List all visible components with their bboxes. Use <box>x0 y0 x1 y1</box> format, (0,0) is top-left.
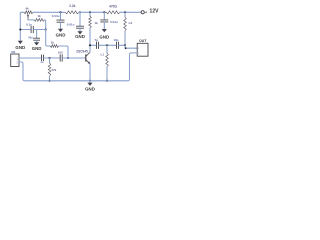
node C <box>89 11 91 13</box>
wire: wiper to R2 <box>28 19 34 21</box>
svg-text:GND: GND <box>32 46 42 51</box>
svg-text:0.01u: 0.01u <box>67 23 75 27</box>
wire: bottom ground rail <box>25 80 128 82</box>
capacitor C4 0.01u <box>79 12 81 25</box>
wire: node row y29.5 <box>20 29 30 31</box>
svg-text:GND: GND <box>75 34 85 39</box>
capacitor C9 10p <box>117 42 119 49</box>
svg-text:2SC945: 2SC945 <box>76 50 88 54</box>
svg-text:L2: L2 <box>129 21 133 25</box>
node F <box>106 44 108 46</box>
ground GND6 (rail) <box>89 81 91 83</box>
resistor R6 2.2k <box>65 11 79 14</box>
capacitor C5 0.04u <box>103 12 105 19</box>
resistor R3 470 <box>106 11 120 14</box>
node D <box>103 11 105 13</box>
wire: C6 to base node <box>44 57 60 59</box>
wire: top rail pot to 2.2k <box>33 11 65 13</box>
resistor R8 47k <box>49 58 51 63</box>
svg-text:6k: 6k <box>26 6 30 10</box>
svg-text:1k: 1k <box>94 21 98 25</box>
resistor R7 1k collector load <box>89 12 91 16</box>
resistor R5 1k base bias <box>50 45 58 48</box>
wire: R2 to bias node <box>45 20 46 30</box>
svg-text:7p: 7p <box>95 38 99 42</box>
svg-text:L1: L1 <box>101 52 105 56</box>
node A <box>59 11 61 13</box>
resistor R1 potentiometer 6k body <box>24 11 33 14</box>
ground GND1 <box>18 41 23 44</box>
wire: bias node down to base resistor row <box>46 30 51 47</box>
svg-text:47k: 47k <box>51 68 56 72</box>
wire: OUT pin2 to ground rail <box>128 53 138 81</box>
transistor Q1 2SC945 <box>85 54 87 61</box>
node: bias filter node <box>45 28 47 30</box>
node G antenna node <box>124 44 126 46</box>
svg-text:M1: M1 <box>11 50 15 54</box>
svg-text:GND: GND <box>85 87 95 92</box>
node B <box>79 11 81 13</box>
power terminal 12V <box>141 11 144 14</box>
svg-text:0.04u: 0.04u <box>52 14 60 18</box>
svg-text:4u: 4u <box>40 60 43 64</box>
capacitor C7 100p series <box>60 54 62 61</box>
svg-text:OUT: OUT <box>139 39 147 43</box>
microphone M1 box <box>11 54 19 67</box>
wire: RF row collector to 7p <box>90 44 96 46</box>
svg-text:100: 100 <box>58 50 63 54</box>
capacitor C2 50u to ground <box>33 38 40 40</box>
inductor L2 <box>124 12 126 17</box>
wire: 50u tap down <box>36 30 38 38</box>
wire: mic pin2 down to rail <box>19 62 25 81</box>
svg-text:50u: 50u <box>28 36 33 40</box>
ground GND5 <box>102 29 107 32</box>
capacitor C6 4u7 coupling <box>42 55 44 61</box>
svg-text:12V: 12V <box>150 9 160 15</box>
resistor R2 1k (wiper series) <box>34 18 45 21</box>
svg-text:10p: 10p <box>113 38 118 42</box>
inductor L1 <box>106 45 108 53</box>
ground GND2 <box>34 42 39 45</box>
ground GND3 <box>58 29 63 32</box>
svg-text:1k: 1k <box>37 14 41 18</box>
connector OUT box <box>137 43 148 56</box>
capacitor C1 0.1u (series in node row) <box>31 26 33 33</box>
wire: collector up <box>89 45 91 52</box>
svg-text:GND: GND <box>99 35 109 40</box>
wire: rail to terminal <box>120 11 141 13</box>
wire: R5 to base node <box>59 46 68 58</box>
wire: top rail left segment + left drop to ground <box>22 11 25 13</box>
svg-text:470Ω: 470Ω <box>109 4 117 8</box>
wire: node G to OUT pin1 <box>125 45 137 48</box>
capacitor C8 7p <box>97 42 99 49</box>
svg-text:GND: GND <box>15 45 25 50</box>
ground GND4 <box>77 31 82 34</box>
node E <box>124 11 126 13</box>
svg-text:0.04u: 0.04u <box>110 20 118 24</box>
wire: mic pin1 to C6 <box>19 57 40 59</box>
svg-text:2.2k: 2.2k <box>69 4 75 8</box>
svg-text:1k: 1k <box>51 41 55 45</box>
wire: emitter down <box>89 64 91 81</box>
potentiometer wiper arrow <box>27 16 29 20</box>
capacitor C3 0.04u <box>60 12 62 19</box>
svg-text:GND: GND <box>56 32 66 37</box>
svg-text:0.1u: 0.1u <box>26 22 32 26</box>
wire: rail 2.2k to 470 <box>79 11 106 13</box>
